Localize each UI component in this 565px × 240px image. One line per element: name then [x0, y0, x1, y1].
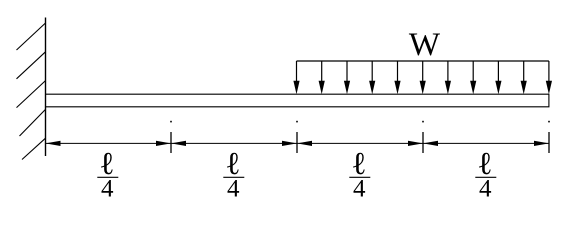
wall hatch 1	[17, 23, 46, 50]
wall hatch 5	[22, 138, 46, 159]
svg-text:W: W	[409, 27, 441, 63]
dim arrow right of tick 3 (points left)	[423, 141, 438, 146]
tick 4	[548, 132, 550, 153]
load arrow 4	[369, 61, 375, 94]
dim arrow at wall (points left)	[46, 141, 61, 146]
dimension line	[46, 142, 550, 144]
extension dot 1	[170, 121, 172, 123]
load arrow 7	[445, 61, 451, 94]
tick 1	[170, 132, 172, 153]
fraction bar 1	[97, 176, 118, 178]
tick 3	[422, 132, 424, 153]
dim arrow left of tick 1 (points right)	[156, 141, 171, 146]
svg-text:4: 4	[479, 176, 492, 203]
fraction bar 3	[349, 176, 370, 178]
svg-text:4: 4	[101, 176, 114, 203]
tick 2	[296, 132, 298, 153]
distributed load top line	[297, 60, 549, 62]
fraction bar 2	[223, 176, 244, 178]
load arrow 11	[546, 61, 552, 94]
extension dot 3	[422, 121, 424, 123]
load arrow 9	[495, 61, 501, 94]
load arrow 3	[344, 61, 350, 94]
load arrow 1	[293, 61, 299, 94]
wall hatch 2	[17, 52, 46, 79]
dim arrow left of tick 3 (points right)	[408, 141, 423, 146]
dim arrow right of tick 1 (points left)	[171, 141, 186, 146]
load arrow 10	[521, 61, 527, 94]
dim arrow left of tick 2 (points right)	[282, 141, 297, 146]
load arrow 2	[319, 61, 325, 94]
svg-text:4: 4	[227, 176, 240, 203]
load arrow 8	[470, 61, 476, 94]
fraction bar 4	[475, 176, 496, 178]
beam outline	[46, 94, 549, 107]
dim arrow at tick 4 (points right)	[534, 141, 549, 146]
wall hatch 3	[17, 81, 46, 108]
fixed support wall	[45, 18, 47, 157]
extension dot 4	[548, 121, 550, 123]
wall hatch 4	[20, 109, 46, 136]
load arrow 5	[394, 61, 400, 94]
extension dot 2	[296, 121, 298, 123]
load arrow 6	[420, 61, 426, 94]
svg-text:4: 4	[353, 176, 366, 203]
dim arrow right of tick 2 (points left)	[297, 141, 312, 146]
